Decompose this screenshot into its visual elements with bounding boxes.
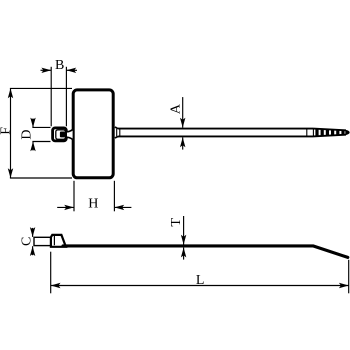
- svg-text:C: C: [20, 237, 35, 246]
- svg-text:L: L: [196, 273, 205, 288]
- svg-text:H: H: [88, 197, 98, 212]
- svg-text:A: A: [169, 103, 184, 114]
- svg-text:F: F: [0, 127, 13, 135]
- svg-text:T: T: [169, 218, 184, 227]
- svg-text:D: D: [20, 129, 35, 139]
- svg-text:B: B: [55, 58, 64, 73]
